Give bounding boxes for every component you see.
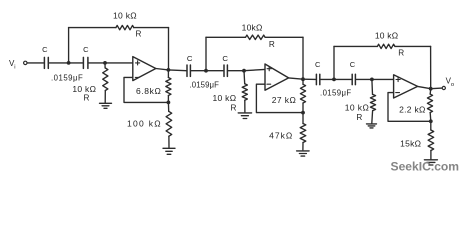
- wire: [27, 62, 43, 64]
- wire: [243, 71, 246, 84]
- capacitor C3 (.0159 uF coupling): [187, 65, 190, 76]
- node J8: [370, 78, 374, 82]
- svg-text:.0159μF: .0159μF: [320, 89, 352, 98]
- svg-text:SeekIC.com: SeekIC.com: [391, 159, 460, 173]
- wire: [418, 86, 431, 88]
- wire: [244, 69, 265, 70]
- label C (C5): [315, 60, 321, 69]
- wire: [105, 62, 133, 64]
- svg-text:C: C: [222, 54, 228, 63]
- svg-text:C: C: [350, 60, 356, 69]
- label C (C6): [350, 60, 356, 69]
- node J6: [301, 111, 305, 115]
- wire: [89, 62, 105, 64]
- wire: [431, 87, 442, 90]
- wire: [303, 78, 316, 80]
- svg-text:R: R: [136, 30, 142, 39]
- svg-text:10 kΩ: 10 kΩ: [375, 31, 398, 41]
- ground (R2): [100, 103, 112, 108]
- wire: [168, 69, 186, 72]
- label C (C2): [83, 45, 89, 54]
- svg-text:10 kΩ: 10 kΩ: [72, 84, 96, 94]
- wire: [156, 69, 169, 70]
- capacitor C2 (.0159 uF coupling): [83, 57, 88, 68]
- svg-text:.0159μF: .0159μF: [51, 73, 83, 82]
- wire: [206, 70, 223, 72]
- svg-text:10 kΩ: 10 kΩ: [345, 103, 369, 113]
- svg-text:R: R: [398, 49, 404, 58]
- resistor R2 10 k ohm (stage 1 shunt): [103, 68, 108, 91]
- node J4: [204, 69, 208, 73]
- wire: [69, 27, 116, 29]
- node N2 (stage 2 output): [301, 77, 305, 81]
- capacitor C4 (.0159 uF coupling): [224, 65, 227, 76]
- ground (R8): [297, 151, 310, 156]
- label 15 k-ohm (R12): [400, 138, 421, 148]
- resistor R9 10 k ohm (stage 3 feedback): [377, 44, 395, 48]
- minus input U1: [135, 76, 139, 78]
- label 100 k-ohm (R4): [127, 118, 162, 128]
- ground (R6): [238, 113, 251, 119]
- wire: [321, 78, 334, 80]
- resistor R8 47 k ohm (to ground): [300, 113, 306, 150]
- wire: [430, 46, 432, 88]
- wire: [69, 62, 83, 64]
- ground (R10): [367, 124, 377, 128]
- wire: [206, 36, 246, 38]
- label .0159 uF (C3 C4): [190, 81, 220, 90]
- ground (R12): [424, 160, 437, 165]
- svg-text:10 kΩ: 10 kΩ: [113, 11, 137, 21]
- capacitor C1 (.0159 uF coupling): [44, 57, 48, 68]
- label 47 k-ohm (R8): [269, 130, 293, 140]
- svg-text:C: C: [187, 54, 193, 63]
- wire: [104, 91, 106, 103]
- svg-text:C: C: [42, 45, 48, 54]
- label R (R6): [230, 104, 236, 113]
- label 27 k-ohm (R7): [272, 95, 296, 105]
- wire: [371, 111, 374, 124]
- label C (C1): [42, 45, 48, 54]
- svg-text:27 kΩ: 27 kΩ: [272, 95, 296, 105]
- wire: [49, 62, 68, 64]
- svg-text:.0159μF: .0159μF: [190, 81, 220, 90]
- svg-text:10kΩ: 10kΩ: [242, 22, 263, 32]
- node J5: [242, 69, 246, 73]
- resistor R5 10 k ohm (stage 2 feedback): [246, 35, 266, 39]
- resistor R1 10 k ohm (stage 1 feedback): [116, 25, 134, 29]
- svg-text:6.8kΩ: 6.8kΩ: [136, 86, 161, 96]
- wire: [168, 28, 170, 70]
- resistor R10 10 k ohm (stage 3 shunt): [370, 95, 375, 111]
- svg-text:R: R: [356, 113, 362, 122]
- svg-text:o: o: [451, 82, 454, 88]
- svg-text:C: C: [83, 45, 89, 54]
- wire: [334, 78, 351, 80]
- label 10 k-ohm (R9): [375, 31, 398, 41]
- node J7: [332, 78, 336, 82]
- wire: [191, 70, 206, 72]
- svg-text:47kΩ: 47kΩ: [269, 130, 293, 140]
- label R (R10): [356, 113, 362, 122]
- wire: [372, 78, 394, 80]
- svg-text:R: R: [230, 104, 236, 113]
- node J9: [429, 119, 433, 123]
- svg-text:15kΩ: 15kΩ: [400, 138, 421, 148]
- label .0159 uF (C1 C2): [51, 73, 83, 82]
- wire: [124, 77, 168, 102]
- label 10 k-ohm (R10): [345, 103, 369, 113]
- resistor R3 6.8 k ohm (U1 feedback): [166, 70, 171, 103]
- plus input U1: [136, 61, 140, 65]
- wire: [356, 78, 372, 80]
- wire: [256, 84, 303, 112]
- label 2.2 k-ohm (R11): [399, 104, 426, 114]
- wire: [333, 46, 335, 79]
- node J3: [167, 101, 171, 105]
- resistor R4 100 k ohm (to ground): [166, 102, 172, 147]
- watermark SeekIC.com: [391, 159, 460, 173]
- label R (R2): [84, 94, 90, 103]
- node N3 (output node): [429, 87, 433, 91]
- label 10 k-ohm (R5): [242, 22, 263, 32]
- svg-text:R: R: [84, 94, 90, 103]
- label 10 k-ohm (R6): [212, 93, 236, 103]
- minus input U2: [267, 83, 271, 85]
- svg-text:i: i: [14, 65, 15, 71]
- label 10 k-ohm (R1): [113, 11, 137, 21]
- wire: [134, 27, 169, 29]
- resistor R11 2.2 k ohm (U3 feedback): [427, 89, 432, 122]
- wire: [289, 78, 303, 79]
- svg-text:2.2 kΩ: 2.2 kΩ: [399, 104, 426, 114]
- input terminal Vi: [9, 59, 27, 70]
- wire: [265, 36, 303, 38]
- label C (C4): [222, 54, 228, 63]
- op-amp U2: [265, 64, 289, 90]
- wire: [228, 70, 244, 72]
- resistor R6 10 k ohm (stage 2 shunt): [242, 84, 247, 100]
- svg-text:R: R: [269, 40, 275, 49]
- wire: [104, 63, 106, 68]
- label 6.8 k-ohm (R3): [136, 86, 161, 96]
- plus input U2: [267, 67, 271, 71]
- capacitor C6 (.0159 uF coupling): [352, 74, 355, 84]
- wire: [334, 45, 377, 47]
- label C (C3): [187, 54, 193, 63]
- resistor R7 27 k ohm (U2 feedback): [300, 79, 305, 112]
- svg-text:10 kΩ: 10 kΩ: [212, 93, 236, 103]
- op-amp U1: [133, 57, 156, 81]
- wire: [371, 79, 374, 94]
- node J1: [67, 61, 71, 65]
- wire: [244, 100, 246, 112]
- wire: [68, 28, 70, 63]
- node N1 (stage 1 output): [167, 68, 171, 72]
- label .0159 uF (C5 C6): [320, 89, 352, 98]
- wire: [388, 93, 431, 122]
- label 10 k-ohm (R2): [72, 84, 96, 94]
- svg-text:C: C: [315, 60, 321, 69]
- output terminal Vo: [442, 77, 454, 90]
- wire: [395, 45, 431, 47]
- wire: [205, 37, 207, 70]
- minus input U3: [396, 92, 400, 94]
- capacitor C5 (.0159 uF coupling): [316, 74, 319, 84]
- label R (R5): [269, 40, 275, 49]
- wire: [302, 37, 304, 79]
- op-amp U3: [394, 75, 418, 98]
- resistor R12 15 k ohm (to ground): [428, 121, 434, 159]
- plus input U3: [396, 77, 400, 81]
- label R (R1): [136, 30, 142, 39]
- svg-text:100 kΩ: 100 kΩ: [127, 118, 162, 128]
- node J2: [103, 61, 107, 65]
- label R (R9): [398, 49, 404, 58]
- ground (R4): [163, 148, 175, 154]
